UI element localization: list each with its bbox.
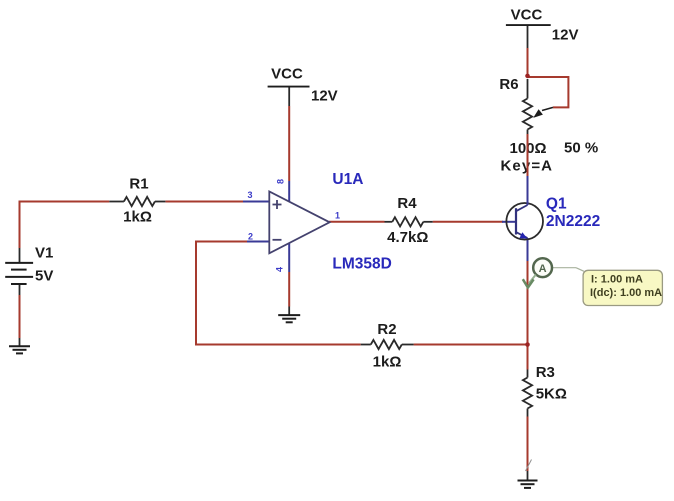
svg-text:1: 1	[335, 211, 340, 221]
svg-text:2N2222: 2N2222	[546, 213, 600, 230]
svg-text:8: 8	[276, 179, 286, 184]
svg-text:2: 2	[248, 232, 253, 242]
svg-text:5V: 5V	[35, 268, 53, 285]
svg-text:12V: 12V	[311, 88, 338, 105]
svg-text:U1A: U1A	[332, 171, 363, 188]
svg-text:LM358D: LM358D	[332, 256, 391, 273]
svg-text:VCC: VCC	[271, 66, 303, 83]
svg-text:R6: R6	[499, 76, 518, 93]
svg-text:12V: 12V	[552, 27, 579, 44]
svg-text:R4: R4	[397, 195, 417, 212]
svg-text:Q1: Q1	[546, 196, 567, 213]
svg-text:A: A	[539, 263, 547, 275]
svg-text:50 %: 50 %	[564, 140, 598, 157]
svg-text:V1: V1	[35, 245, 53, 262]
svg-text:R3: R3	[536, 364, 555, 381]
svg-text:1kΩ: 1kΩ	[123, 209, 152, 226]
svg-text:3: 3	[247, 190, 252, 200]
svg-text:4: 4	[275, 267, 285, 272]
svg-text:5KΩ: 5KΩ	[536, 386, 567, 403]
svg-text:R2: R2	[377, 321, 396, 338]
svg-text:R1: R1	[129, 176, 148, 193]
svg-text:4.7kΩ: 4.7kΩ	[387, 229, 428, 246]
svg-text:I(dc): 1.00 mA: I(dc): 1.00 mA	[590, 287, 662, 299]
svg-text:I: 1.00 mA: I: 1.00 mA	[591, 274, 643, 286]
svg-text:1kΩ: 1kΩ	[373, 354, 402, 371]
svg-text:VCC: VCC	[511, 7, 543, 24]
